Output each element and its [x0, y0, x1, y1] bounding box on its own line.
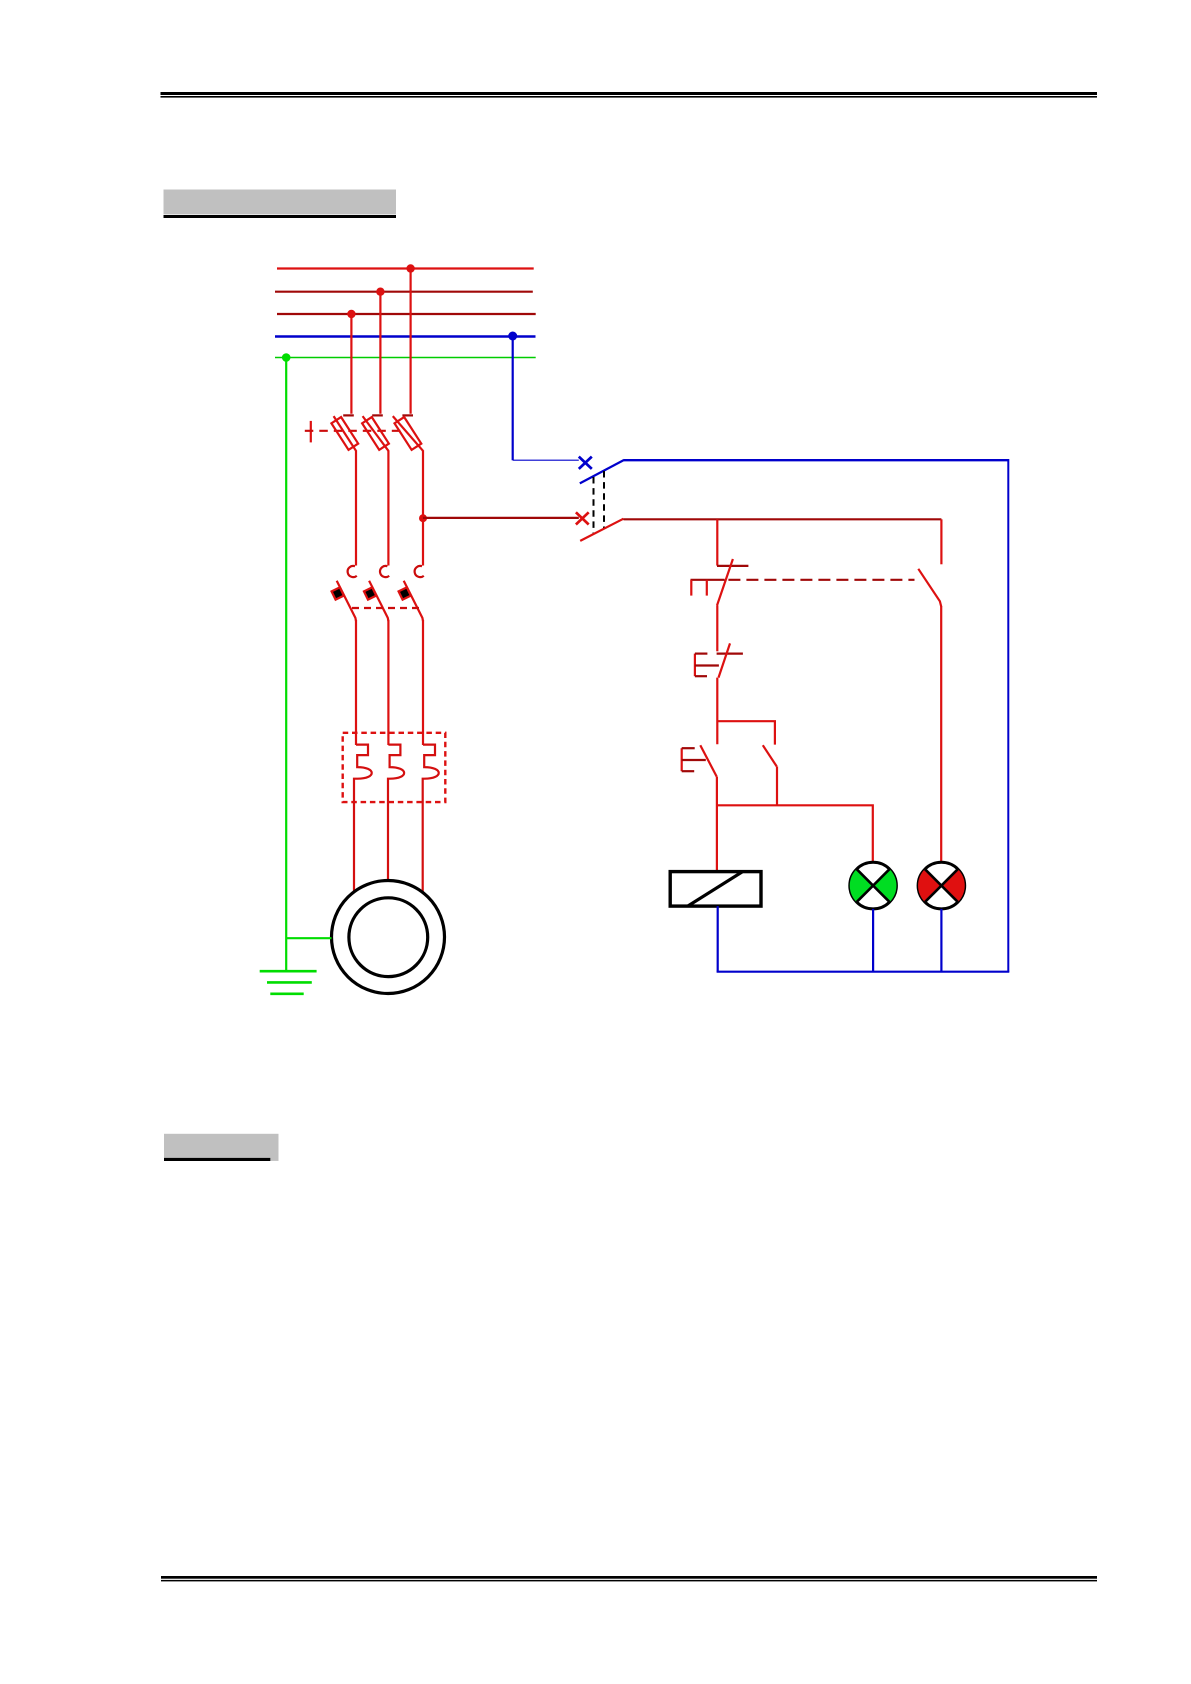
wire red lamp to N return — [940, 909, 942, 972]
overload aux actuator — [695, 654, 719, 677]
fuse-switch F1 pole 1 — [331, 415, 358, 565]
fuse-switch F1 pole 3 — [393, 415, 423, 565]
overload heater pole 3 — [423, 745, 439, 893]
fuse-switch F1 pole 2 — [362, 415, 389, 565]
header rule — [161, 92, 1098, 98]
wire L2 to fuse pole 2 — [379, 292, 381, 414]
stop button S1 NC contact — [717, 559, 748, 606]
wire red to right — [624, 518, 942, 520]
wire to stop button — [716, 519, 718, 565]
overload relay F2 box — [343, 733, 446, 802]
stop button linkage — [728, 579, 914, 581]
rail N — [275, 335, 536, 338]
contactor KM1 linkage — [352, 607, 420, 609]
motor M1 — [332, 881, 445, 994]
node L2 junction — [376, 288, 384, 296]
wire top bridge to aux contact — [717, 721, 775, 744]
footer rule — [161, 1576, 1097, 1581]
node PE junction — [282, 353, 291, 362]
fuse-switch F1 linkage — [305, 430, 402, 432]
contactor KM1 pole 1 — [332, 566, 357, 745]
contactor KM1 pole 2 — [364, 566, 389, 745]
wire L1 to fuse pole 3 — [410, 269, 412, 414]
lamp H1 green — [850, 862, 897, 909]
wire N bottom return — [717, 971, 1010, 973]
ground — [260, 971, 317, 994]
wire blue to right — [624, 459, 1008, 461]
wire L3 to fuse pole 1 — [350, 314, 352, 414]
wire start button to coil — [716, 777, 718, 872]
wire N right side — [1007, 459, 1009, 972]
start button S2 actuator — [682, 748, 706, 771]
wire coil to N return — [717, 906, 719, 972]
wire branch to Q1 red pole — [423, 517, 579, 519]
node L1 junction — [406, 264, 414, 272]
node control branch — [419, 514, 427, 522]
wire PE down — [285, 358, 287, 972]
rail PE — [275, 357, 536, 359]
switch Q1 linkage — [594, 471, 605, 535]
start button S2 NO contact — [700, 745, 716, 776]
heading 2 highlight — [164, 1134, 279, 1161]
rail L3 — [277, 313, 536, 315]
wire PE to motor — [286, 937, 331, 939]
overload heater pole 1 — [354, 745, 372, 892]
switch Q1 red pole — [576, 512, 624, 541]
node N junction — [508, 332, 517, 341]
stop button S1 actuator — [691, 580, 725, 596]
node L3 junction — [347, 310, 355, 318]
lamp H2 red — [918, 862, 965, 909]
fuse-switch F1 actuator — [310, 421, 312, 443]
wire green lamp to N return — [872, 909, 874, 972]
wire right drop to NO contact — [940, 519, 942, 564]
coil KM1 — [670, 872, 761, 907]
overload aux NC contact F2 — [717, 643, 743, 677]
wire to start button — [716, 678, 718, 745]
heading 1 highlight — [164, 190, 397, 219]
wire to red lamp — [940, 606, 942, 862]
wire bottom bridge to green lamp — [717, 805, 873, 862]
wire stop to overload contact — [716, 606, 718, 652]
contactor KM1 pole 3 — [399, 566, 424, 745]
rail L2 — [275, 291, 533, 293]
switch Q1 blue pole — [513, 457, 625, 484]
overload heater pole 2 — [388, 745, 404, 881]
NO contact for red lamp — [918, 569, 941, 607]
KM1 auxiliary NO contact — [763, 745, 777, 805]
rail L1 — [277, 267, 534, 269]
wire N to switch Q1 — [512, 336, 514, 460]
